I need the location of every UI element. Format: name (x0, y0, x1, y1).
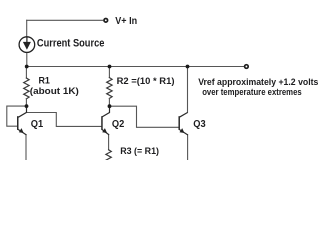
transistor Q1 (18, 106, 27, 135)
terminal V+ In (104, 19, 108, 23)
wire Q2 emitter to R3 (108, 135, 110, 150)
current source I1 (19, 37, 35, 53)
junction node: bus / Q3 collector (186, 65, 190, 69)
wire R2 bottom lead (108, 98, 110, 106)
junction node: bus / R1 / current source (25, 65, 29, 69)
wire Q3 emitter down (187, 135, 189, 160)
junction node A: R1 / Q1 collector-base (25, 104, 29, 108)
svg-text:R3 (= R1): R3 (= R1) (120, 146, 159, 156)
resistor R2 (107, 78, 112, 99)
transistor Q2 (102, 106, 110, 134)
wire R2 top lead (108, 67, 110, 78)
transistor Q3 (179, 113, 187, 135)
wire V+ top horizontal (27, 19, 103, 21)
wire Q1 emitter down (25, 135, 27, 160)
junction node B: R2 / Q2 collector (108, 104, 112, 108)
svg-text:Vref approximately +1.2 volts: Vref approximately +1.2 volts (198, 77, 318, 87)
svg-text:V+ In: V+ In (115, 16, 137, 27)
svg-text:R2 =(10 * R1): R2 =(10 * R1) (117, 76, 175, 86)
wire current source bottom to bus (26, 53, 28, 67)
svg-text:Q1: Q1 (31, 119, 44, 130)
resistor R3 (106, 150, 111, 163)
wire R1 top lead (25, 67, 27, 79)
svg-text:over temperature extremes: over temperature extremes (202, 87, 302, 97)
svg-text:Q2: Q2 (112, 119, 125, 130)
wire bus horizontal (27, 66, 244, 68)
wire V+ vertical to current source (26, 20, 28, 36)
svg-text:Current Source: Current Source (37, 37, 105, 49)
wire Q2 collector to Q3 base (110, 106, 179, 127)
wire node A to Q2 base (27, 113, 101, 127)
wire R1 bottom lead (25, 99, 27, 106)
terminal Vref (245, 65, 249, 69)
svg-text:Q3: Q3 (193, 119, 206, 130)
junction node: bus / R2 (108, 65, 112, 69)
svg-text:(about 1K): (about 1K) (30, 86, 79, 96)
wire Q3 collector to bus (187, 67, 189, 113)
wire Q1 base-collector loop (7, 106, 27, 126)
svg-text:R1: R1 (39, 76, 50, 86)
resistor R1 (24, 78, 29, 99)
